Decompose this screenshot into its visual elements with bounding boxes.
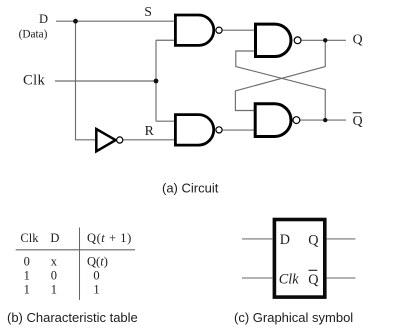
svg-text:1: 1 <box>93 283 99 297</box>
svg-text:0: 0 <box>51 269 57 283</box>
svg-text:1: 1 <box>24 269 30 283</box>
svg-text:1: 1 <box>24 283 30 297</box>
svg-text:Q: Q <box>308 272 318 288</box>
svg-text:x: x <box>51 255 58 269</box>
svg-text:(Data): (Data) <box>19 29 48 41</box>
svg-text:(b) Characteristic table: (b) Characteristic table <box>7 310 138 325</box>
svg-text:S: S <box>144 4 152 19</box>
svg-text:Q: Q <box>308 232 318 248</box>
svg-text:(c) Graphical symbol: (c) Graphical symbol <box>234 310 353 325</box>
svg-text:0: 0 <box>93 269 99 283</box>
svg-text:D: D <box>50 231 59 245</box>
svg-text:0: 0 <box>24 255 30 269</box>
svg-text:Clk: Clk <box>279 271 299 287</box>
svg-text:R: R <box>145 123 155 138</box>
svg-text:1: 1 <box>51 283 57 297</box>
svg-text:D: D <box>280 232 290 248</box>
svg-text:Q: Q <box>353 32 363 47</box>
svg-text:Clk: Clk <box>20 231 39 245</box>
svg-text:(a) Circuit: (a) Circuit <box>162 180 219 195</box>
svg-text:Q(t + 1): Q(t + 1) <box>87 231 132 245</box>
svg-text:Q(t): Q(t) <box>87 255 108 269</box>
svg-text:Q: Q <box>353 113 363 128</box>
svg-text:Clk: Clk <box>23 72 45 88</box>
svg-text:D: D <box>39 12 48 26</box>
